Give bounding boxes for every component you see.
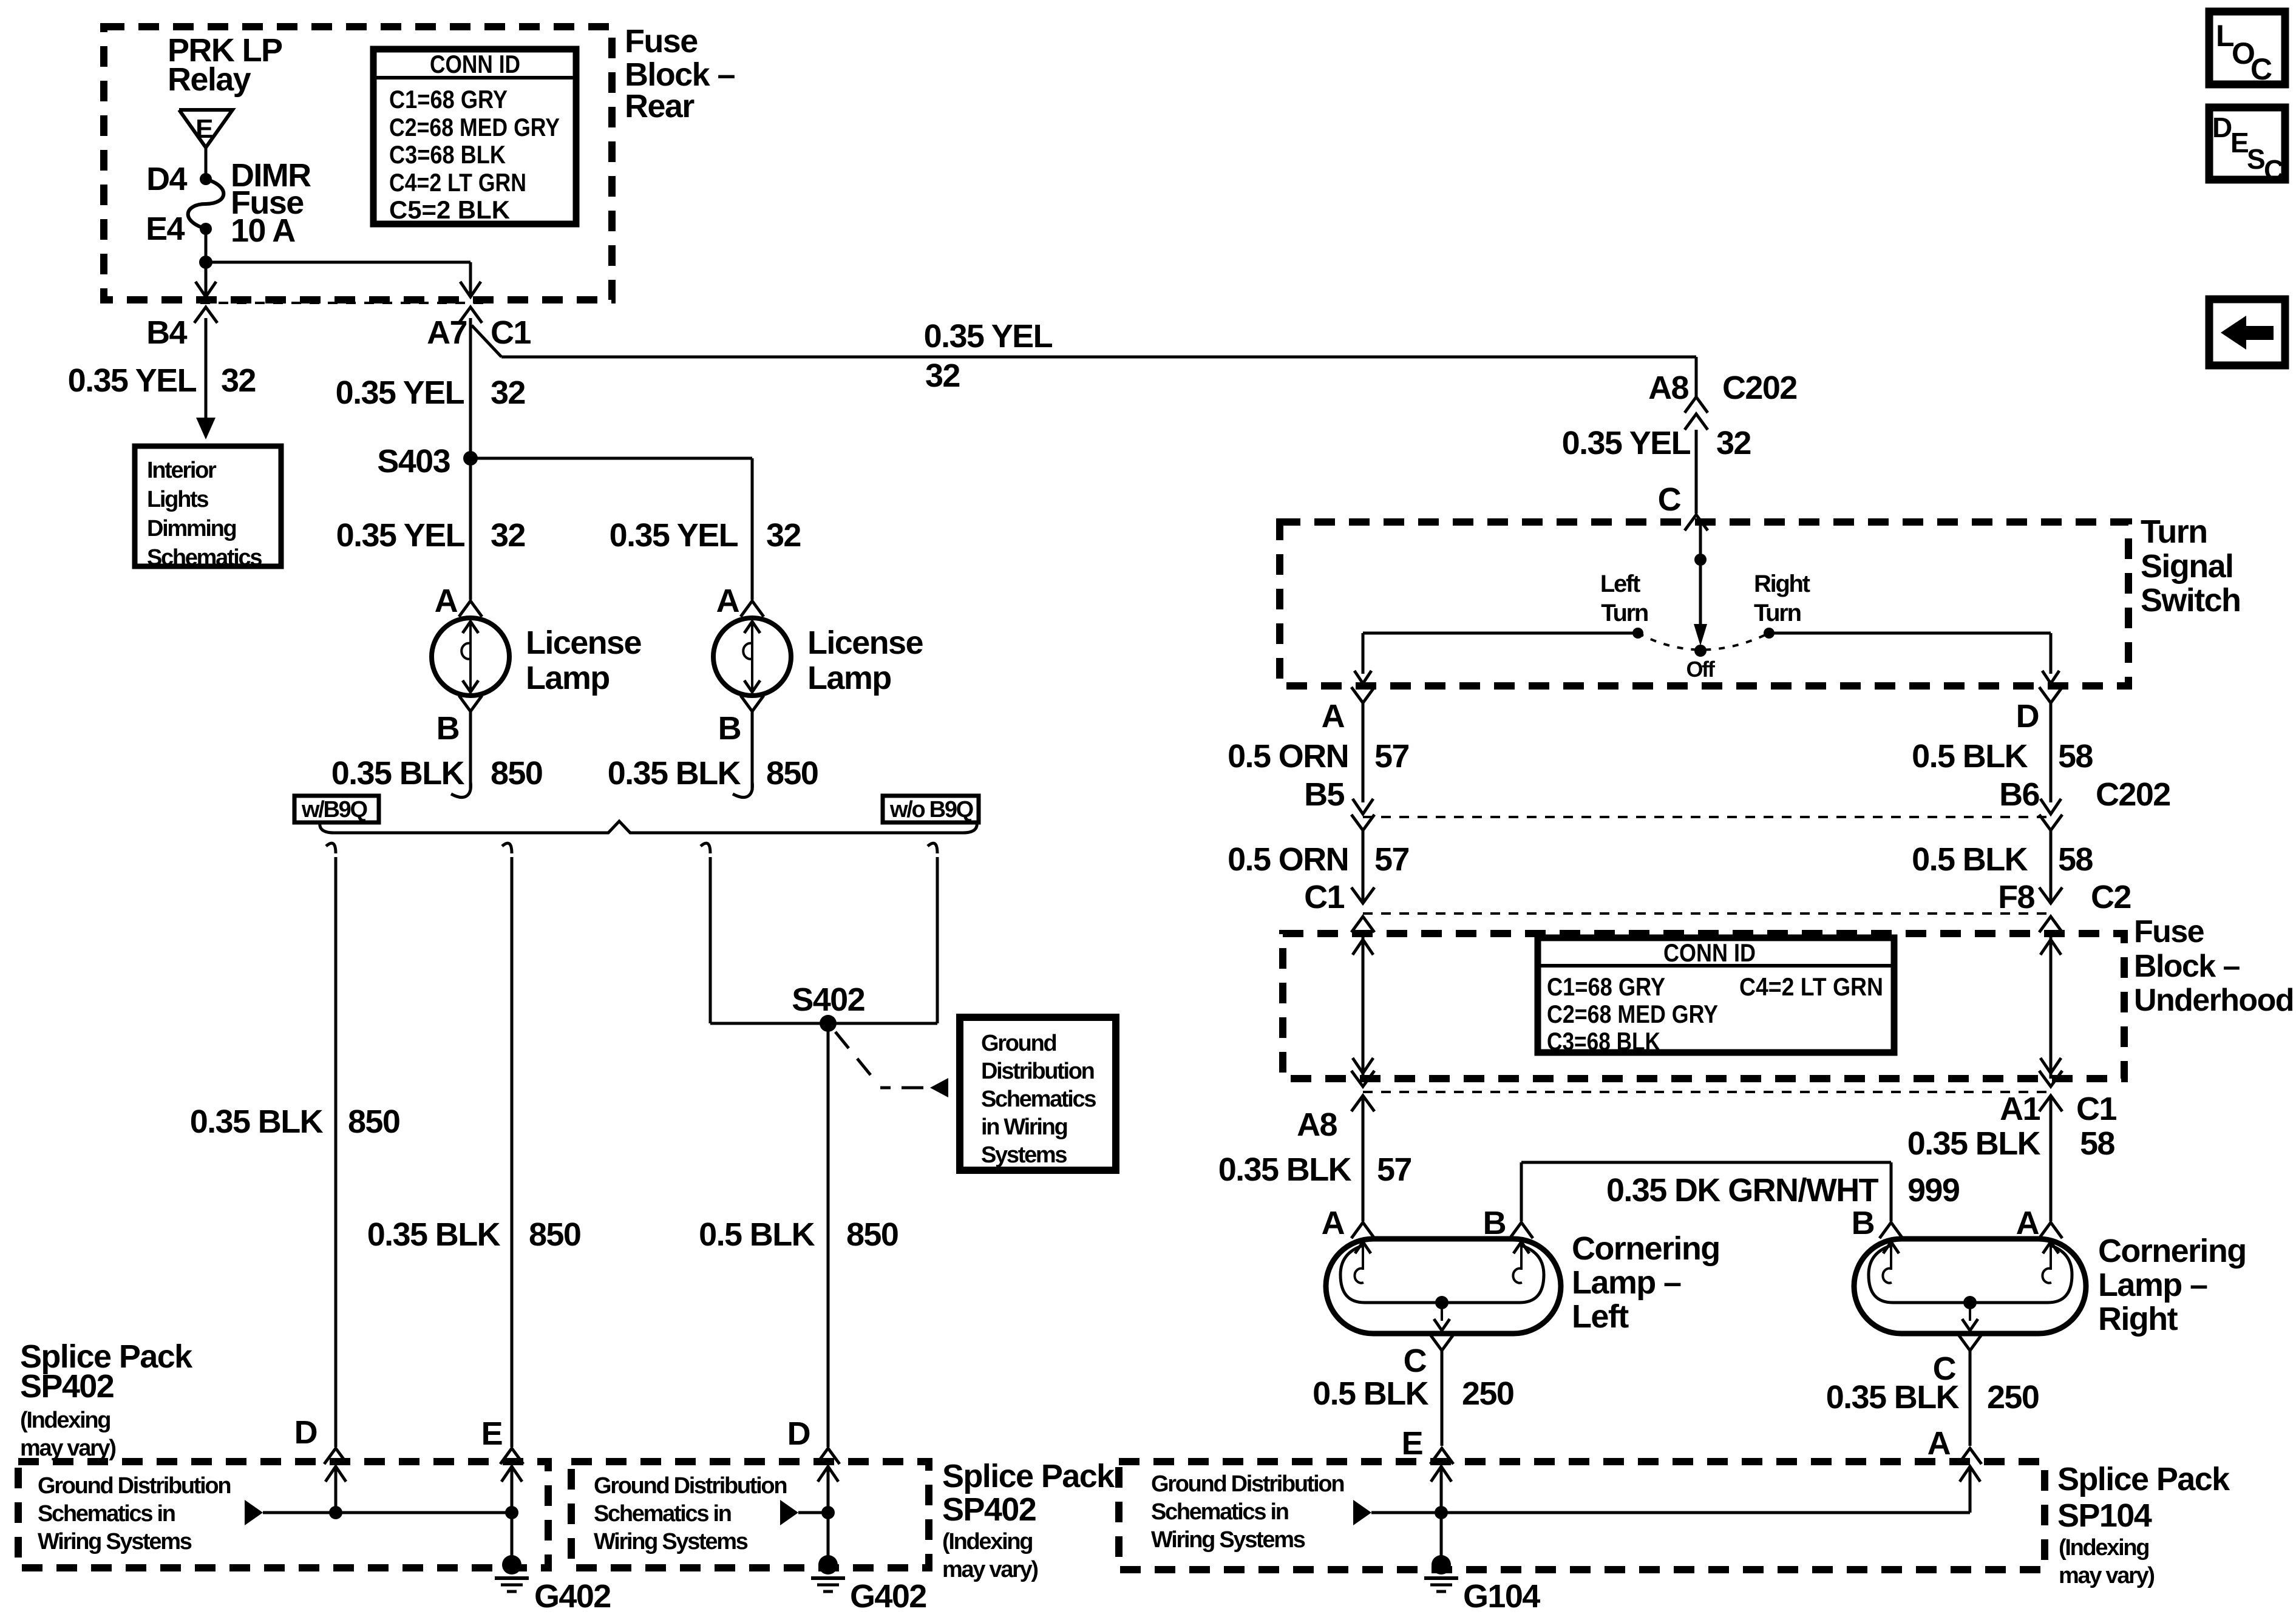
svg-text:E: E: [195, 114, 212, 144]
wire 0.35 BLK 850 (left lamp ground lead): [469, 711, 472, 790]
svg-text:S403: S403: [377, 443, 450, 480]
svg-text:0.5 BLK: 0.5 BLK: [1912, 738, 2028, 775]
svg-text:(Indexing: (Indexing: [942, 1529, 1032, 1554]
svg-text:32: 32: [221, 362, 256, 399]
junction E (box 3): [1435, 1506, 1448, 1519]
wire riser (box 2): [827, 1468, 830, 1513]
node E4: [200, 223, 212, 235]
connector B6 lower half: [2039, 815, 2062, 830]
cornering lamp right filament B: [1890, 1242, 1892, 1270]
svg-text:C: C: [1404, 1343, 1427, 1379]
node D4: [200, 173, 212, 185]
svg-text:Dimming: Dimming: [147, 516, 236, 541]
svg-text:Schematics: Schematics: [147, 545, 262, 571]
svg-text:C202: C202: [1722, 370, 1797, 406]
connector A of left license lamp: [459, 601, 482, 617]
cornering lamp left (housing): [1326, 1239, 1561, 1334]
wire 0.35 BLK 850 (right lamp ground lead): [751, 711, 754, 790]
svg-text:License: License: [526, 625, 641, 661]
svg-text:A7: A7: [427, 314, 467, 351]
ground G402 (box 1): [502, 1555, 521, 1575]
wire 0.35 BLK 57 (to left cornering lamp): [1362, 1096, 1365, 1221]
svg-text:S: S: [2247, 143, 2264, 175]
svg-text:SP104: SP104: [2057, 1497, 2152, 1534]
wire 0.5 ORN 57 (switch A to C202): [1362, 703, 1365, 802]
connector B4: [194, 307, 217, 323]
wire E4 to junction: [205, 229, 208, 262]
connector table CONN ID (underhood): [1538, 938, 1894, 1053]
svg-text:C202: C202: [2096, 776, 2170, 813]
svg-text:C: C: [1658, 481, 1681, 518]
svg-text:E: E: [2230, 127, 2248, 158]
svg-text:Lamp –: Lamp –: [1572, 1264, 1681, 1301]
svg-text:B: B: [1852, 1205, 1874, 1241]
svg-text:L: L: [2216, 19, 2233, 53]
svg-text:850: 850: [766, 755, 818, 792]
wire junction to B4 exit with arrow: [205, 262, 208, 296]
svg-text:S402: S402: [792, 981, 864, 1018]
svg-text:0.35 YEL: 0.35 YEL: [1562, 425, 1691, 461]
wire 0.35 BLK 250 (right lamp to SP104): [1969, 1351, 1972, 1446]
svg-text:0.35 BLK: 0.35 BLK: [1826, 1379, 1960, 1415]
fuse block - rear enclosure (dashed): [104, 27, 612, 300]
svg-text:C2=68 MED GRY: C2=68 MED GRY: [389, 113, 560, 141]
switch contact Right Turn: [1764, 628, 1775, 639]
connector D (right turn): [2039, 687, 2062, 703]
wire junction to A7 exit with arrow: [206, 261, 470, 264]
svg-text:850: 850: [348, 1103, 399, 1140]
svg-text:Schematics: Schematics: [981, 1086, 1096, 1112]
ground G402 (box 2): [818, 1555, 838, 1575]
svg-text:850: 850: [529, 1216, 580, 1253]
svg-text:Distribution: Distribution: [981, 1059, 1094, 1084]
svg-text:G104: G104: [1463, 1578, 1540, 1615]
svg-text:C4=2 LT GRN: C4=2 LT GRN: [389, 168, 526, 197]
cornering lamp right filament A: [2050, 1242, 2052, 1270]
wire ground stub (box 2): [798, 1511, 828, 1514]
connector table CONN ID (rear): [373, 49, 576, 224]
svg-text:0.35 BLK: 0.35 BLK: [608, 755, 741, 792]
wire branch A7 to long feed (diagonal): [472, 325, 501, 357]
svg-text:Schematics in: Schematics in: [38, 1501, 175, 1527]
svg-text:Systems: Systems: [981, 1142, 1067, 1168]
wire left turn output: [1363, 632, 1638, 635]
svg-text:10 A: 10 A: [231, 212, 295, 249]
connector A8 / C202: [1685, 397, 1708, 413]
svg-text:C2: C2: [2091, 879, 2131, 915]
svg-text:Splice Pack: Splice Pack: [2057, 1461, 2230, 1497]
wire E to ground G402: [511, 1513, 514, 1558]
svg-text:A: A: [2016, 1205, 2039, 1241]
svg-text:Ground: Ground: [981, 1031, 1056, 1056]
svg-text:0.35 YEL: 0.35 YEL: [924, 318, 1053, 354]
wire (w/o B9Q right drop): [928, 843, 937, 853]
arrow into interior lights dimming box: [196, 418, 216, 439]
ground feed arrow (box 1): [245, 1500, 263, 1525]
ground G104: [1432, 1555, 1451, 1575]
cornering lamp left common node: [1435, 1296, 1449, 1309]
connector D (w/B9Q left): [324, 1448, 347, 1464]
wire relay E to fuse D4: [205, 146, 208, 179]
connector C of cornering lamp right: [1958, 1335, 1982, 1351]
svg-text:SP402: SP402: [20, 1368, 114, 1405]
svg-text:0.35 BLK: 0.35 BLK: [331, 755, 465, 792]
wire to ground G104: [1440, 1513, 1443, 1558]
cornering lamp left filament B: [1520, 1242, 1523, 1270]
svg-text:999: 999: [1907, 1172, 1960, 1209]
connector B of cornering lamp left: [1510, 1222, 1533, 1238]
switch contact Left Turn: [1632, 628, 1643, 639]
svg-text:C5=2 BLK: C5=2 BLK: [389, 195, 510, 224]
wire riser A (box 3): [1969, 1468, 1972, 1513]
junction (box 2): [821, 1506, 835, 1519]
fuse DIMR 10A: [188, 179, 224, 229]
reference box Ground Distribution Schematics in Wiring Systems (S402): [960, 1017, 1116, 1170]
svg-text:A1: A1: [2000, 1091, 2040, 1127]
svg-text:57: 57: [1374, 841, 1409, 878]
svg-text:Fuse: Fuse: [2134, 914, 2204, 949]
svg-text:250: 250: [1987, 1379, 2039, 1415]
svg-text:may vary): may vary): [20, 1436, 115, 1461]
svg-text:Turn: Turn: [1754, 600, 1801, 626]
svg-text:D4: D4: [146, 161, 187, 197]
svg-text:B6: B6: [1999, 776, 2039, 813]
connector B of right license lamp: [741, 696, 764, 711]
junction D (box 1): [329, 1506, 342, 1519]
svg-text:E: E: [481, 1415, 502, 1452]
svg-text:Interior: Interior: [147, 458, 217, 483]
fuse block - underhood enclosure (dashed): [1283, 934, 2124, 1079]
svg-text:Left: Left: [1600, 571, 1640, 597]
switch position Off (dashed arc): [1638, 633, 1769, 650]
svg-text:C3=68 BLK: C3=68 BLK: [389, 140, 506, 169]
svg-text:B: B: [1483, 1205, 1506, 1241]
ground distribution box 2 (dashed): [571, 1462, 929, 1568]
svg-text:250: 250: [1462, 1375, 1513, 1412]
svg-text:D: D: [787, 1415, 810, 1452]
svg-text:may vary): may vary): [2059, 1563, 2154, 1588]
svg-text:Relay: Relay: [168, 61, 251, 98]
svg-text:CONN ID: CONN ID: [1663, 938, 1756, 967]
svg-text:Fuse: Fuse: [625, 23, 698, 59]
svg-text:Right: Right: [2098, 1301, 2178, 1337]
svg-text:may vary): may vary): [942, 1557, 1038, 1582]
connector A of right license lamp: [741, 601, 764, 617]
wire 0.5 BLK 850 (S402 to ground): [827, 1023, 830, 1447]
svg-text:D: D: [2212, 112, 2232, 143]
svg-text:Cornering: Cornering: [1572, 1230, 1720, 1267]
relay PRK LP contact E (triangle): [179, 110, 233, 147]
cornering lamp right common node: [1963, 1296, 1977, 1309]
svg-text:C1: C1: [1304, 879, 1344, 915]
wire 0.5 BLK 58 (switch D to C202): [2050, 703, 2053, 802]
svg-text:32: 32: [1716, 425, 1751, 461]
connector A1 / C1 (underhood to right cornering lamp): [2039, 1071, 2062, 1086]
reference box Interior Lights Dimming Schematics: [135, 446, 281, 566]
splice S403: [463, 451, 478, 466]
svg-text:Splice Pack: Splice Pack: [942, 1458, 1115, 1494]
svg-text:A: A: [435, 583, 458, 619]
inline connector dashes at fuse block underhood top: [1363, 912, 2051, 915]
svg-text:A8: A8: [1648, 370, 1688, 406]
svg-text:Underhood: Underhood: [2134, 983, 2294, 1018]
svg-text:Off: Off: [1686, 657, 1715, 682]
svg-text:850: 850: [846, 1216, 898, 1253]
svg-text:0.35 BLK: 0.35 BLK: [367, 1216, 501, 1253]
svg-text:Ground Distribution: Ground Distribution: [1151, 1471, 1343, 1497]
connector F8 lower half: [2039, 887, 2062, 903]
wire through fuse block underhood (right): [2050, 934, 2053, 1079]
svg-text:E4: E4: [146, 211, 185, 247]
svg-text:in Wiring: in Wiring: [981, 1114, 1067, 1140]
svg-text:A: A: [1322, 1205, 1345, 1241]
svg-text:A: A: [716, 583, 739, 619]
inline connector dashes at fuse block rear exits: [200, 302, 486, 304]
wire 0.35 YEL 32 (feed to turn signal switch): [501, 356, 1696, 359]
svg-text:Wiring Systems: Wiring Systems: [1151, 1527, 1305, 1553]
svg-text:C1: C1: [2076, 1091, 2116, 1127]
legend box back arrow: [2209, 299, 2285, 365]
ground feed arrow (box 3): [1353, 1500, 1371, 1525]
svg-text:D: D: [2016, 698, 2039, 734]
svg-text:A: A: [1322, 698, 1345, 734]
svg-text:0.35 YEL: 0.35 YEL: [610, 517, 738, 554]
svg-text:Block –: Block –: [2134, 949, 2240, 984]
wire 0.35 YEL 32 (A7 down to S403): [469, 318, 472, 600]
svg-text:C4=2 LT GRN: C4=2 LT GRN: [1739, 972, 1883, 1001]
cornering lamp right (housing): [1854, 1239, 2086, 1334]
svg-text:Ground Distribution: Ground Distribution: [38, 1473, 230, 1499]
svg-text:0.5 BLK: 0.5 BLK: [699, 1216, 815, 1253]
connector A8 (underhood to left cornering lamp): [1351, 1071, 1374, 1086]
junction in fuse block rear: [199, 256, 212, 269]
svg-text:32: 32: [491, 375, 525, 411]
svg-text:Rear: Rear: [625, 88, 695, 124]
inline connector dashes at fuse block underhood bottom: [1363, 1091, 2051, 1093]
connector C1 lower half: [1351, 887, 1374, 903]
svg-text:0.35 YEL: 0.35 YEL: [336, 517, 465, 554]
wire 0.5 BLK 58 (C202 to fuse block underhood): [2050, 830, 2053, 903]
wire through fuse block underhood (left): [1362, 934, 1365, 1079]
wire ground bus (box 1): [263, 1511, 513, 1514]
svg-text:B: B: [436, 710, 459, 747]
svg-text:C2=68 MED GRY: C2=68 MED GRY: [1547, 1000, 1718, 1028]
svg-text:(Indexing: (Indexing: [2059, 1535, 2148, 1561]
splice S402: [710, 1022, 937, 1025]
svg-text:G402: G402: [850, 1578, 926, 1615]
license lamp right (bulb): [713, 618, 791, 696]
connector A of cornering lamp right: [2039, 1222, 2062, 1238]
wire D riser (box 1): [335, 1468, 338, 1513]
svg-text:Wiring Systems: Wiring Systems: [594, 1529, 748, 1554]
legend box LOC: [2209, 12, 2285, 84]
connector C of turn signal switch: [1685, 515, 1708, 531]
svg-text:Switch: Switch: [2141, 582, 2240, 619]
wire (w/B9Q right drop): [502, 843, 512, 853]
connector B of cornering lamp right: [1880, 1222, 1903, 1238]
svg-text:0.5 BLK: 0.5 BLK: [1912, 841, 2028, 878]
turn signal switch wiper: [1699, 522, 1702, 564]
svg-text:B5: B5: [1304, 776, 1344, 813]
svg-text:58: 58: [2080, 1125, 2114, 1162]
svg-text:Lamp –: Lamp –: [2098, 1267, 2207, 1303]
svg-text:32: 32: [925, 358, 960, 394]
ground feed arrow (box 2): [780, 1500, 798, 1525]
svg-text:0.35 YEL: 0.35 YEL: [336, 375, 464, 411]
ground distribution box 1 (dashed): [18, 1462, 548, 1568]
svg-text:Right: Right: [1754, 571, 1810, 597]
option label w/o B9Q: [883, 796, 979, 822]
svg-text:32: 32: [766, 517, 801, 554]
svg-text:850: 850: [491, 755, 542, 792]
wire 0.35 YEL 32 (C202 to switch): [1695, 430, 1698, 514]
svg-text:0.5 ORN: 0.5 ORN: [1228, 738, 1348, 775]
svg-text:C3=68 BLK: C3=68 BLK: [1547, 1027, 1660, 1056]
svg-text:Lamp: Lamp: [807, 660, 891, 696]
connector A at splice pack SP104: [1958, 1448, 1982, 1464]
cornering lamp left filament A: [1362, 1242, 1364, 1270]
svg-text:Turn: Turn: [1601, 600, 1648, 626]
license lamp left (bulb): [432, 618, 509, 696]
connector D (S402 wire): [817, 1448, 840, 1464]
turn signal switch enclosure (dashed): [1280, 522, 2128, 686]
svg-text:License: License: [807, 625, 923, 661]
wire 0.5 BLK 250 (left lamp to SP104): [1441, 1351, 1444, 1446]
option label w/B9Q: [294, 796, 379, 822]
svg-text:F8: F8: [1998, 879, 2034, 915]
svg-text:0.35 DK GRN/WHT: 0.35 DK GRN/WHT: [1606, 1172, 1879, 1209]
svg-text:57: 57: [1374, 738, 1409, 775]
connector A7 / C1: [459, 307, 482, 323]
svg-text:Schematics in: Schematics in: [594, 1501, 731, 1527]
connector E (w/B9Q right): [500, 1448, 523, 1464]
svg-text:E: E: [1402, 1425, 1422, 1462]
svg-text:57: 57: [1377, 1151, 1411, 1188]
connector C of cornering lamp left: [1430, 1335, 1453, 1351]
svg-text:C1=68 GRY: C1=68 GRY: [1547, 972, 1665, 1001]
svg-text:0.35 YEL: 0.35 YEL: [68, 362, 197, 399]
svg-text:0.35 BLK: 0.35 BLK: [1218, 1151, 1352, 1188]
svg-text:SP402: SP402: [942, 1491, 1036, 1528]
legend box DESC: [2209, 107, 2285, 180]
wire right turn output: [1769, 632, 2051, 635]
svg-text:Cornering: Cornering: [2098, 1233, 2246, 1269]
option brace: [320, 821, 977, 833]
connector A of cornering lamp left: [1351, 1222, 1374, 1238]
svg-text:(Indexing: (Indexing: [20, 1408, 110, 1433]
inline connector C202 (dashed): [1363, 816, 2051, 818]
svg-text:Lamp: Lamp: [526, 660, 610, 696]
wire 0.35 YEL 32 (B4 down): [205, 318, 208, 418]
connector B5 lower half: [1351, 815, 1374, 830]
svg-text:w/B9Q: w/B9Q: [301, 797, 367, 822]
wire 0.35 BLK 58 (to right cornering lamp): [2050, 1096, 2053, 1221]
svg-text:B: B: [718, 710, 741, 747]
svg-text:0.5 ORN: 0.5 ORN: [1228, 841, 1348, 878]
svg-text:Schematics in: Schematics in: [1151, 1499, 1288, 1525]
svg-text:B4: B4: [146, 314, 187, 351]
svg-text:Block –: Block –: [625, 56, 735, 93]
svg-text:G402: G402: [534, 1578, 611, 1615]
svg-text:Lights: Lights: [147, 487, 208, 512]
svg-text:C: C: [2264, 154, 2283, 186]
wire S403 to right license lamp: [470, 457, 752, 460]
svg-text:32: 32: [491, 517, 525, 554]
svg-text:Left: Left: [1572, 1298, 1629, 1335]
svg-text:D: D: [294, 1414, 317, 1451]
wire to ground G402 (box 2): [827, 1513, 830, 1558]
svg-text:A8: A8: [1297, 1107, 1337, 1143]
connector A (left turn): [1351, 687, 1374, 703]
svg-text:0.5 BLK: 0.5 BLK: [1313, 1375, 1428, 1412]
svg-text:Turn: Turn: [2141, 514, 2207, 550]
svg-text:58: 58: [2058, 841, 2093, 878]
svg-text:Wiring Systems: Wiring Systems: [38, 1529, 192, 1554]
wire 0.35 DK GRN/WHT 999 (lamp B to lamp B): [1520, 1162, 1523, 1221]
wire E riser (box 1): [511, 1468, 514, 1513]
ground distribution box 3 (dashed): [1119, 1462, 2045, 1570]
svg-text:C: C: [2250, 52, 2272, 86]
connector E at splice pack: [1430, 1448, 1453, 1464]
wire riser E (box 3): [1440, 1468, 1443, 1513]
wire 0.35 BLK 850 (w/B9Q left drop): [326, 843, 336, 853]
svg-text:0.35 BLK: 0.35 BLK: [190, 1103, 324, 1140]
svg-text:A: A: [1927, 1425, 1951, 1462]
connector B of left license lamp: [459, 696, 482, 711]
wire (w/o B9Q left drop): [701, 843, 710, 853]
svg-text:Ground Distribution: Ground Distribution: [594, 1473, 786, 1499]
svg-text:CONN ID: CONN ID: [430, 50, 520, 78]
svg-text:C1: C1: [491, 314, 531, 351]
svg-text:Signal: Signal: [2141, 548, 2233, 585]
svg-text:w/o B9Q: w/o B9Q: [889, 797, 973, 822]
wire ground bus (box 3): [1371, 1511, 1970, 1514]
svg-text:C1=68 GRY: C1=68 GRY: [389, 85, 508, 114]
junction E (box 1): [505, 1506, 518, 1519]
leader from S402 to ground distribution note: [835, 1032, 923, 1088]
wire 0.5 ORN 57 (C202 to fuse block underhood): [1362, 830, 1365, 903]
svg-text:0.35 BLK: 0.35 BLK: [1907, 1125, 2041, 1162]
svg-text:58: 58: [2058, 738, 2093, 775]
